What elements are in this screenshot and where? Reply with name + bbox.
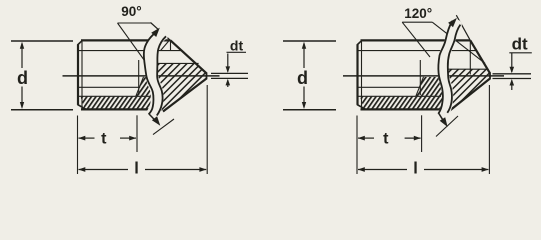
socket depth extension line inner — [419, 60, 421, 95]
bottom outline edge — [361, 108, 445, 110]
chamfer bottom-left — [357, 105, 366, 110]
svg-text:t: t — [101, 131, 107, 148]
thread runout line — [161, 40, 171, 51]
socket depth extension line inner — [138, 60, 140, 95]
dt dimension line upper — [227, 54, 229, 72]
thread minor line bottom (strip top) — [358, 95, 441, 97]
svg-text:d: d — [297, 68, 308, 88]
chamfer edge vertical — [81, 41, 83, 109]
dt extension line bottom — [493, 78, 532, 80]
angle arrow upper — [448, 18, 457, 27]
section hatch: wedge right of socket bottom — [136, 77, 153, 97]
angle arrow upper — [151, 28, 160, 37]
angle arrow lower shaft — [149, 114, 155, 121]
dt extension line bottom — [211, 77, 248, 79]
thread minor diameter line — [78, 50, 182, 52]
dt extension line top — [493, 73, 532, 75]
cone angle extension line to shelf — [151, 23, 171, 41]
thread minor diameter line — [357, 50, 477, 52]
t/l extension line left — [356, 116, 358, 175]
d extension line top — [283, 40, 336, 42]
dt dimension line upper — [511, 53, 513, 72]
screw body left end face — [77, 45, 79, 105]
chamfer top-left — [357, 40, 362, 45]
d dimension line lower — [21, 87, 23, 108]
angle dimension shelf — [118, 22, 151, 24]
dt label shelf — [509, 52, 532, 54]
d dimension line upper — [303, 44, 305, 69]
svg-text:l: l — [413, 160, 418, 178]
cone bottom face extension line — [436, 116, 458, 137]
t/l extension line left — [77, 116, 79, 175]
l extension line right — [206, 85, 208, 174]
svg-text:d: d — [17, 68, 28, 88]
section hatch top boundary line — [439, 68, 488, 70]
bottom outline edge — [81, 108, 162, 110]
svg-text:120°: 120° — [404, 6, 432, 21]
break band left stroke — [144, 31, 158, 114]
angle arrow lower — [440, 117, 448, 127]
top outline edge — [81, 39, 171, 41]
cone bottom face extension line — [153, 119, 174, 135]
d extension line bottom — [283, 109, 336, 111]
d dimension line lower — [303, 87, 305, 108]
d extension line top — [11, 40, 73, 42]
socket bottom cone flank — [136, 77, 144, 97]
dt dimension line lower stub — [511, 80, 513, 90]
cone bottom face — [163, 79, 207, 112]
thread minor line bottom (strip top) — [79, 95, 151, 97]
cone bottom face — [445, 79, 490, 115]
section break white halo — [150, 34, 162, 115]
cone top face — [470, 40, 490, 73]
section hatch: wedge right of socket bottom — [416, 77, 443, 97]
l dimension line — [79, 169, 129, 171]
t extension line right — [421, 115, 423, 152]
l dimension line — [358, 169, 407, 171]
section hatch: threaded wall strip — [360, 97, 443, 109]
flat tip face — [489, 73, 491, 80]
angle dimension left leg — [118, 23, 148, 64]
top outline edge — [361, 39, 471, 41]
svg-text:t: t — [383, 131, 389, 148]
chamfer bottom-left — [78, 105, 87, 110]
angle dimension left leg — [402, 22, 430, 57]
angle arrow lower shaft — [438, 113, 444, 122]
flat tip face — [206, 73, 208, 80]
svg-text:90°: 90° — [121, 4, 141, 19]
section hatch: cone point section — [442, 69, 490, 114]
svg-text:l: l — [134, 160, 139, 178]
section hatch: threaded wall strip — [81, 97, 153, 109]
d extension line bottom — [11, 109, 73, 111]
hex socket line — [358, 86, 420, 88]
chamfer top-left — [78, 40, 83, 45]
section hatch: cone point section — [157, 63, 206, 111]
cone angle extension line to shelf — [456, 15, 470, 40]
center line — [63, 75, 220, 77]
d dimension line upper — [21, 44, 23, 69]
angle arrow lower — [152, 116, 160, 126]
t dimension arrows — [79, 137, 95, 139]
section hatch top boundary line — [149, 62, 199, 64]
dt dimension line lower stub — [227, 80, 229, 87]
t extension line right — [136, 115, 138, 152]
angle dimension right leg — [432, 22, 485, 63]
center line — [343, 75, 504, 77]
screw body left end face — [356, 45, 358, 105]
cone base edge vertical — [170, 40, 172, 50]
svg-text:dt: dt — [512, 35, 528, 54]
cone base edge vertical — [469, 40, 471, 74]
chamfer edge vertical — [361, 41, 363, 109]
break band right stroke — [447, 25, 460, 113]
dt label shelf — [227, 51, 247, 53]
break band left stroke — [438, 21, 452, 114]
section break white halo — [443, 25, 456, 114]
cone top face — [171, 40, 207, 73]
angle dimension shelf — [402, 21, 432, 23]
socket bottom cone flank — [416, 77, 424, 97]
hex socket line — [79, 86, 141, 88]
t dimension arrows — [358, 137, 374, 139]
l extension line right — [488, 85, 490, 174]
svg-text:dt: dt — [230, 38, 244, 54]
dt extension line top — [211, 72, 248, 74]
break band right stroke — [157, 36, 166, 115]
